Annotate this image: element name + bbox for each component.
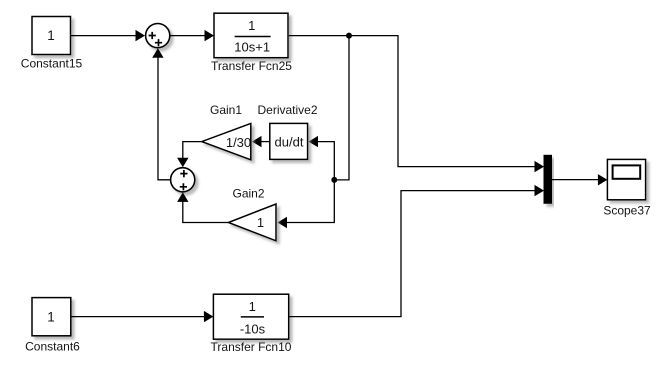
Constant6 name label xyxy=(25,339,80,353)
gain block Gain1 (left pointing triangle) xyxy=(202,123,251,159)
svg-text:1: 1 xyxy=(47,28,55,43)
svg-text:Scope37: Scope37 xyxy=(603,204,651,218)
svg-text:Gain1: Gain1 xyxy=(210,103,242,117)
svg-text:1: 1 xyxy=(257,215,264,230)
svg-text:Constant6: Constant6 xyxy=(25,339,80,353)
wire Gain2 output to Sum2 bottom input xyxy=(177,192,228,222)
wire Constant6 to Transfer Fcn10 xyxy=(71,311,214,322)
Derivative2 text "du/dt" xyxy=(275,135,304,150)
Gain1 name label xyxy=(210,103,242,117)
junction node feedback split xyxy=(331,177,337,183)
Constant15 name label xyxy=(21,57,83,71)
derivative block Derivative2 xyxy=(270,123,308,159)
svg-text:1: 1 xyxy=(248,18,255,33)
sum block Sum2 xyxy=(171,168,195,192)
wire Transfer Fcn25 output to corner then mux input 1 xyxy=(289,36,544,173)
Gain2 value "1" xyxy=(257,215,264,230)
Transfer Fcn10 fraction bar xyxy=(241,316,264,318)
Transfer Fcn10 name label xyxy=(211,340,292,354)
svg-text:Derivative2: Derivative2 xyxy=(257,103,317,117)
transfer fcn block Transfer Fcn25 xyxy=(214,13,288,58)
wire Constant15 to Sum1 xyxy=(71,30,146,41)
Constant15 value label "1" xyxy=(47,28,55,43)
wire feedback node up to Derivative2 input xyxy=(309,136,335,180)
constant block Constant6 xyxy=(32,298,71,336)
svg-text:du/dt: du/dt xyxy=(275,135,304,150)
Gain2 name label xyxy=(232,186,264,200)
wire Derivative2 output to Gain1 input xyxy=(252,136,270,147)
wire Sum2 output to Sum1 bottom input xyxy=(152,48,170,180)
wire mux output to Scope37 xyxy=(552,174,608,185)
constant block Constant15 xyxy=(32,17,71,55)
Scope37 screen icon xyxy=(613,165,641,178)
svg-text:10s+1: 10s+1 xyxy=(234,39,270,54)
Constant6 value label "1" xyxy=(47,309,55,324)
Transfer Fcn25 numerator "1" xyxy=(248,18,255,33)
svg-text:1: 1 xyxy=(47,309,55,324)
wire Sum1 to Transfer Fcn25 xyxy=(170,30,214,41)
Transfer Fcn25 name label xyxy=(211,59,292,73)
svg-text:1/30: 1/30 xyxy=(226,135,251,150)
junction node on Transfer Fcn25 output xyxy=(346,33,352,39)
svg-text:Gain2: Gain2 xyxy=(232,186,264,200)
wire feedback node down to Gain2 input xyxy=(278,180,335,228)
svg-text:1: 1 xyxy=(249,299,256,314)
wire junction down to feedback node xyxy=(334,36,349,180)
Transfer Fcn25 denominator "10s+1" xyxy=(234,39,270,54)
svg-text:Transfer Fcn10: Transfer Fcn10 xyxy=(211,340,292,354)
scope block Scope37 xyxy=(607,159,645,199)
Scope37 name label xyxy=(603,204,651,218)
wire Gain1 output to Sum2 top input xyxy=(177,142,202,168)
Gain1 value "1/30" xyxy=(226,135,251,150)
Transfer Fcn25 fraction bar xyxy=(235,36,271,38)
svg-text:-10s: -10s xyxy=(240,322,266,337)
wire Transfer Fcn10 output to mux input 2 xyxy=(289,185,544,317)
Transfer Fcn10 denominator "-10s" xyxy=(240,322,266,337)
svg-text:Transfer Fcn25: Transfer Fcn25 xyxy=(211,59,292,73)
sum block Sum1 xyxy=(146,23,170,47)
mux block (black bar) xyxy=(544,155,552,203)
svg-text:Constant15: Constant15 xyxy=(21,57,83,71)
transfer fcn block Transfer Fcn10 xyxy=(213,294,288,339)
gain block Gain2 (left pointing triangle) xyxy=(228,204,276,241)
Derivative2 name label xyxy=(257,103,317,117)
Transfer Fcn10 numerator "1" xyxy=(249,299,256,314)
